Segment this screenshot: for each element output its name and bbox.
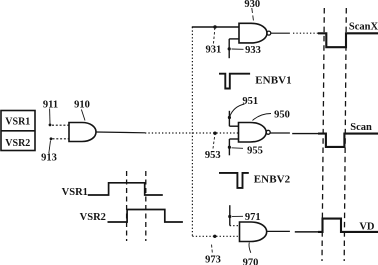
svg-text:933: 933	[245, 45, 261, 56]
svg-text:ScanX: ScanX	[349, 21, 378, 32]
svg-text:970: 970	[243, 257, 259, 265]
svg-text:930: 930	[244, 0, 260, 10]
svg-text:911: 911	[43, 99, 58, 110]
svg-text:951: 951	[242, 96, 258, 107]
svg-text:931: 931	[206, 44, 222, 55]
svg-text:971: 971	[245, 212, 261, 223]
svg-text:ENBV2: ENBV2	[254, 173, 291, 185]
svg-text:ENBV1: ENBV1	[255, 75, 292, 87]
svg-text:VD: VD	[359, 222, 375, 233]
svg-text:973: 973	[205, 254, 221, 265]
svg-text:VSR2: VSR2	[80, 212, 106, 223]
svg-text:VSR1: VSR1	[62, 187, 88, 198]
svg-text:955: 955	[247, 146, 263, 157]
svg-text:VSR1: VSR1	[5, 116, 30, 127]
svg-text:Scan: Scan	[350, 122, 372, 133]
svg-text:910: 910	[74, 100, 90, 111]
svg-text:VSR2: VSR2	[5, 138, 30, 149]
svg-text:950: 950	[274, 110, 290, 121]
svg-text:953: 953	[205, 150, 221, 161]
svg-text:913: 913	[41, 153, 57, 164]
